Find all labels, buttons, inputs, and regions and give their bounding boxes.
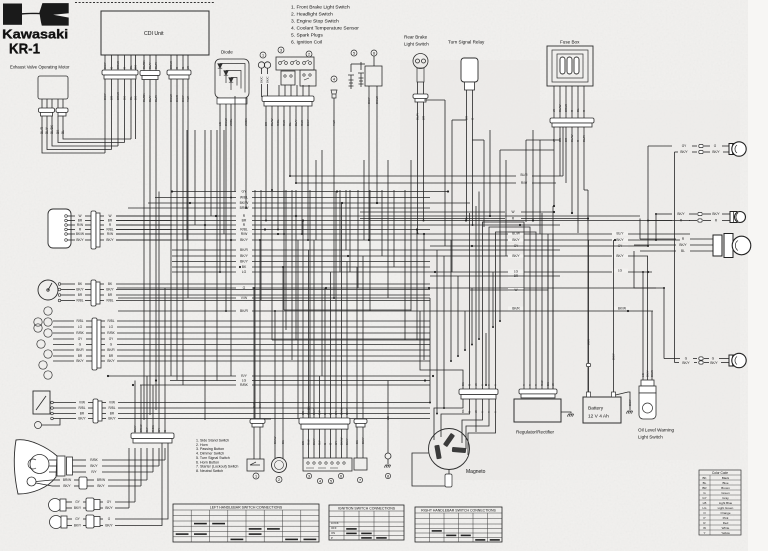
svg-text:BK/Y: BK/Y bbox=[677, 212, 685, 216]
svg-text:BK/Y: BK/Y bbox=[105, 506, 113, 510]
wires, CDI group3 long drops bbox=[170, 79, 172, 376]
svg-text:BL: BL bbox=[681, 249, 685, 253]
svg-text:BL/Y: BL/Y bbox=[45, 126, 49, 134]
regulator rectifier bbox=[514, 399, 561, 422]
wires, CDI group1 drop to motor elbows bbox=[104, 79, 106, 153]
svg-text:BR/W: BR/W bbox=[63, 478, 71, 482]
license plate light bbox=[656, 213, 672, 215]
wire bus R/Y bbox=[108, 375, 236, 377]
meter illumination bulb bbox=[35, 422, 42, 429]
svg-text:ON: ON bbox=[331, 531, 335, 535]
svg-text:5. Spark Plugs: 5. Spark Plugs bbox=[291, 33, 323, 39]
wire bus BK bbox=[172, 266, 236, 268]
bus label BK/W right bbox=[614, 307, 630, 311]
kawasaki logo block bbox=[3, 4, 22, 25]
svg-text:BK/Y: BK/Y bbox=[97, 484, 105, 488]
svg-text:4. Coolant Temperature Sensor: 4. Coolant Temperature Sensor bbox=[291, 26, 359, 32]
svg-text:BR: BR bbox=[78, 354, 83, 358]
connector, starter lockout switch bbox=[354, 419, 367, 423]
indicator lamp cluster bbox=[44, 307, 52, 315]
wire bus BK/Y bbox=[172, 261, 236, 263]
svg-text:BK/R: BK/R bbox=[240, 248, 248, 252]
svg-text:BL/BK: BL/BK bbox=[50, 124, 54, 134]
junction dots bbox=[171, 190, 173, 192]
svg-text:BL/R: BL/R bbox=[520, 173, 528, 177]
staircase risers cluster to buses bbox=[499, 230, 501, 322]
table RIGHT HANDLEBAR SWITCH CONNECTIONS bbox=[415, 507, 502, 542]
svg-text:Gray: Gray bbox=[722, 496, 729, 500]
svg-text:BK/Y: BK/Y bbox=[106, 238, 114, 242]
wires, left switch leads down bbox=[302, 429, 304, 458]
svg-text:BR: BR bbox=[110, 412, 115, 416]
connector, cluster 8-pin bbox=[92, 318, 97, 370]
wire bus G bbox=[117, 287, 236, 289]
svg-text:V/W: V/W bbox=[79, 401, 85, 405]
svg-text:LG: LG bbox=[618, 269, 623, 273]
svg-text:BK/Y: BK/Y bbox=[345, 438, 349, 445]
svg-text:BR: BR bbox=[80, 412, 85, 416]
svg-text:LG: LG bbox=[242, 379, 247, 383]
svg-text:5: 5 bbox=[353, 51, 355, 55]
wires, rear brake switch bbox=[417, 82, 419, 94]
svg-text:BL/Y: BL/Y bbox=[617, 232, 625, 236]
svg-text:R/BL: R/BL bbox=[108, 406, 115, 410]
svg-text:BL/Y: BL/Y bbox=[148, 62, 152, 69]
svg-text:LG: LG bbox=[242, 270, 247, 274]
connector, left handlebar switch 9-pin bbox=[299, 418, 350, 424]
svg-text:R/Y: R/Y bbox=[241, 374, 247, 378]
svg-text:Y: Y bbox=[522, 384, 526, 386]
wire bus R bbox=[116, 215, 236, 217]
extra mid verticals bbox=[339, 190, 341, 272]
svg-text:GY: GY bbox=[334, 441, 338, 445]
svg-text:Orange: Orange bbox=[720, 511, 730, 515]
svg-text:BK/W: BK/W bbox=[273, 436, 277, 444]
svg-text:Magneto: Magneto bbox=[466, 469, 486, 475]
svg-text:BK/Y: BK/Y bbox=[74, 506, 82, 510]
svg-text:Blue: Blue bbox=[722, 481, 728, 485]
svg-text:R/W: R/W bbox=[241, 232, 248, 236]
connector, motor 3-pin bbox=[39, 108, 55, 112]
svg-text:R/W: R/W bbox=[307, 439, 311, 445]
svg-text:BR/W: BR/W bbox=[116, 61, 120, 69]
svg-text:4: 4 bbox=[319, 479, 321, 483]
svg-text:BL: BL bbox=[576, 108, 580, 112]
svg-text:BK/Y: BK/Y bbox=[90, 464, 98, 468]
wires, magneto leads up bbox=[420, 311, 463, 389]
svg-text:BK/R: BK/R bbox=[512, 307, 520, 311]
tail brake light bbox=[640, 238, 676, 240]
svg-text:W: W bbox=[511, 210, 514, 214]
svg-text:W: W bbox=[552, 109, 556, 112]
svg-text:BR: BR bbox=[78, 219, 83, 223]
svg-text:GY: GY bbox=[334, 411, 338, 415]
bus labels mid-right column bbox=[508, 232, 524, 236]
svg-text:BK/Y: BK/Y bbox=[74, 524, 82, 528]
svg-text:4: 4 bbox=[333, 77, 335, 81]
connector, magneto 6-pin bbox=[459, 389, 498, 395]
svg-text:R/W: R/W bbox=[107, 232, 113, 236]
svg-text:BK/Y: BK/Y bbox=[680, 150, 688, 154]
svg-text:BK/Y: BK/Y bbox=[712, 212, 720, 216]
svg-text:1. Front Brake Light Switch: 1. Front Brake Light Switch bbox=[291, 5, 350, 11]
svg-text:2: 2 bbox=[308, 52, 310, 56]
svg-text:Y: Y bbox=[528, 384, 532, 386]
wires, relay leads bbox=[466, 90, 468, 219]
headlight switch S2 bbox=[278, 47, 284, 53]
svg-text:6. Ignition Coil: 6. Ignition Coil bbox=[291, 40, 322, 46]
wire bus R/W bbox=[116, 233, 236, 235]
battery bbox=[583, 397, 621, 423]
svg-text:BK/Y: BK/Y bbox=[103, 62, 107, 69]
svg-text:Exhaust Valve Operating Motor: Exhaust Valve Operating Motor bbox=[10, 65, 70, 70]
wires, meter bbox=[61, 283, 75, 285]
svg-text:BL: BL bbox=[703, 481, 707, 485]
front right turn signal lamp bbox=[50, 516, 63, 529]
svg-text:BK/Y: BK/Y bbox=[312, 438, 316, 445]
svg-text:G/W: G/W bbox=[252, 402, 256, 408]
svg-text:W: W bbox=[703, 526, 706, 530]
wires, fuse box to connector bbox=[553, 86, 555, 118]
svg-text:LG: LG bbox=[78, 325, 83, 329]
color code table bbox=[699, 470, 741, 535]
spark plugs bbox=[351, 50, 357, 56]
svg-text:Yellow: Yellow bbox=[721, 531, 730, 535]
ignition coil T1 bbox=[371, 50, 377, 56]
connector, CDI 4-pin bbox=[167, 70, 191, 75]
extra buses right half bbox=[430, 245, 648, 247]
svg-text:R/BL: R/BL bbox=[106, 228, 113, 232]
svg-text:R/BL: R/BL bbox=[106, 299, 113, 303]
wires, ignition switch bbox=[67, 215, 75, 217]
exhaust valve operating motor bbox=[38, 76, 68, 99]
wire bus LG bbox=[172, 271, 236, 273]
svg-text:BK/Y: BK/Y bbox=[712, 150, 720, 154]
svg-text:BK/R: BK/R bbox=[76, 348, 84, 352]
regulator ground bbox=[561, 412, 571, 413]
svg-text:W: W bbox=[108, 214, 111, 218]
svg-text:Regulator/Rectifier: Regulator/Rectifier bbox=[516, 430, 555, 435]
svg-text:RIGHT HANDLEBAR SWITCH CONNECT: RIGHT HANDLEBAR SWITCH CONNECTIONS bbox=[421, 509, 496, 513]
wire bus R bbox=[116, 224, 236, 226]
svg-text:Kawasaki: Kawasaki bbox=[2, 27, 68, 42]
svg-text:BR/W: BR/W bbox=[240, 206, 250, 210]
svg-text:R/BK: R/BK bbox=[76, 331, 84, 335]
svg-text:GY: GY bbox=[242, 190, 248, 194]
svg-text:BR/W: BR/W bbox=[564, 104, 568, 112]
svg-text:R/BK: R/BK bbox=[90, 458, 98, 462]
svg-text:BK/Y: BK/Y bbox=[63, 484, 71, 488]
svg-text:BK/R: BK/R bbox=[240, 309, 248, 313]
svg-text:BK/Y: BK/Y bbox=[76, 359, 84, 363]
wire bus BK/Y bbox=[116, 239, 236, 241]
wires, battery leads bbox=[588, 240, 590, 392]
svg-text:LG: LG bbox=[109, 325, 114, 329]
svg-text:BR: BR bbox=[108, 293, 113, 297]
svg-text:BK/W: BK/W bbox=[340, 437, 344, 445]
svg-text:BR: BR bbox=[242, 219, 247, 223]
svg-text:BR: BR bbox=[108, 219, 113, 223]
svg-text:Green: Green bbox=[721, 491, 730, 495]
svg-text:LB: LB bbox=[703, 501, 707, 505]
svg-text:GY: GY bbox=[702, 496, 706, 500]
svg-text:LOCK: LOCK bbox=[331, 521, 339, 525]
wires, right verticals bbox=[647, 146, 649, 246]
rear right turn signal light bbox=[664, 358, 680, 360]
svg-text:R/Y: R/Y bbox=[318, 410, 322, 415]
svg-text:V/W: V/W bbox=[241, 296, 248, 300]
svg-text:Battery: Battery bbox=[588, 406, 604, 412]
connector, meter 4-pin bbox=[91, 280, 96, 306]
svg-text:GY: GY bbox=[157, 428, 161, 432]
svg-text:Y: Y bbox=[703, 531, 705, 535]
harness verticals center bbox=[254, 190, 256, 419]
svg-text:3. Engine Stop Switch: 3. Engine Stop Switch bbox=[291, 19, 339, 25]
svg-text:BR: BR bbox=[301, 441, 305, 445]
svg-text:R/W: R/W bbox=[77, 223, 83, 227]
connector, handlebar switches 8-pin bbox=[262, 96, 314, 102]
svg-text:BK/R: BK/R bbox=[107, 348, 115, 352]
svg-text:R/BL: R/BL bbox=[76, 299, 83, 303]
wires, switch row to connector bbox=[278, 85, 280, 96]
wires, indicator cluster bbox=[53, 320, 74, 322]
kawasaki K flag mark bbox=[22, 3, 69, 26]
svg-text:BK: BK bbox=[134, 65, 138, 69]
svg-text:BK/Y: BK/Y bbox=[679, 243, 687, 247]
horn bbox=[272, 458, 287, 473]
wires, CDI group2 long drops bbox=[143, 80, 145, 421]
svg-text:BK/Y: BK/Y bbox=[361, 437, 365, 444]
wires, front harness connector risers bbox=[134, 424, 136, 433]
wires, motor to CDI bbox=[41, 99, 43, 108]
svg-text:R/BL: R/BL bbox=[240, 228, 248, 232]
wires, CDI leads group 2 bbox=[143, 55, 145, 71]
svg-text:BK/Y: BK/Y bbox=[312, 408, 316, 415]
wire bus BR bbox=[116, 220, 236, 222]
svg-text:BK/Y: BK/Y bbox=[512, 254, 520, 258]
svg-text:BK: BK bbox=[355, 440, 359, 444]
svg-text:2. Headlight Switch: 2. Headlight Switch bbox=[291, 12, 333, 18]
connector, CDI 6-pin bbox=[102, 70, 138, 75]
tail light feeds bbox=[639, 219, 641, 240]
svg-text:LG: LG bbox=[702, 506, 707, 510]
table LEFT HANDLEBAR SWITCH CONNECTIONS bbox=[173, 504, 319, 542]
svg-text:R/W: R/W bbox=[521, 181, 527, 185]
svg-text:Light Switch: Light Switch bbox=[638, 435, 663, 440]
svg-text:2: 2 bbox=[278, 478, 280, 482]
connector, left turn signal bbox=[86, 498, 94, 511]
svg-text:Diode: Diode bbox=[221, 50, 233, 55]
svg-text:Rear Brake: Rear Brake bbox=[404, 35, 428, 40]
connector, ignition switch 6-pin bbox=[91, 211, 96, 249]
right side feeder wires bbox=[290, 175, 516, 177]
svg-text:BK: BK bbox=[461, 409, 465, 413]
connector, position light bbox=[79, 477, 87, 489]
connector, headlight bbox=[57, 456, 65, 476]
svg-text:BK/Y: BK/Y bbox=[367, 97, 371, 104]
svg-text:Turn Signal Relay: Turn Signal Relay bbox=[448, 40, 485, 45]
svg-text:BL/R: BL/R bbox=[40, 126, 44, 134]
svg-text:BK/W: BK/W bbox=[618, 307, 626, 311]
neutral switch bbox=[385, 453, 391, 459]
wires, CDI leads group 1 bbox=[104, 55, 106, 70]
svg-text:BK/Y: BK/Y bbox=[616, 254, 624, 258]
svg-text:BK/Y: BK/Y bbox=[240, 260, 248, 264]
svg-text:CDI Unit: CDI Unit bbox=[144, 31, 164, 37]
svg-text:Y: Y bbox=[534, 384, 538, 386]
battery ground wire bbox=[616, 392, 631, 410]
svg-text:1: 1 bbox=[255, 474, 257, 478]
svg-text:8. Neutral Switch: 8. Neutral Switch bbox=[196, 469, 223, 473]
svg-text:BL/R: BL/R bbox=[154, 61, 158, 69]
connector, front harness bbox=[131, 433, 174, 439]
wire bus GY bbox=[172, 191, 236, 193]
svg-text:BK/R: BK/R bbox=[650, 370, 654, 377]
connector, motor 2-pin bbox=[56, 108, 68, 112]
front right turn signal light bbox=[648, 145, 672, 147]
engine stop switch S3 bbox=[306, 51, 312, 57]
svg-text:6: 6 bbox=[340, 474, 342, 478]
svg-text:BK/Y: BK/Y bbox=[133, 425, 137, 432]
svg-text:W/R: W/R bbox=[587, 338, 591, 345]
svg-text:BK/Y: BK/Y bbox=[76, 238, 84, 242]
wire bus BK/W bbox=[148, 202, 236, 204]
svg-text:LG: LG bbox=[514, 270, 519, 274]
svg-text:Pink: Pink bbox=[723, 516, 729, 520]
svg-text:R/BK: R/BK bbox=[107, 331, 115, 335]
svg-text:R/BL: R/BL bbox=[107, 319, 114, 323]
svg-text:OFF: OFF bbox=[331, 526, 337, 530]
headlight assembly bbox=[14, 440, 57, 494]
svg-text:W: W bbox=[186, 66, 190, 69]
svg-text:Light Blue: Light Blue bbox=[719, 501, 733, 505]
svg-text:W/BL: W/BL bbox=[240, 196, 248, 200]
connector, fuse box 6-pin bbox=[550, 118, 594, 123]
harness verticals mid bbox=[186, 130, 188, 240]
svg-text:KR-1: KR-1 bbox=[9, 42, 40, 58]
oil level warning light switch bbox=[641, 380, 654, 386]
svg-text:3: 3 bbox=[280, 48, 282, 52]
wire R to battery bbox=[587, 190, 589, 396]
svg-text:BK/W: BK/W bbox=[375, 96, 379, 104]
svg-text:BK: BK bbox=[242, 265, 247, 269]
wires, ignition coil leads bbox=[368, 86, 370, 240]
fuses bbox=[560, 57, 565, 74]
wire bus BK/R bbox=[172, 249, 236, 251]
svg-text:BK/Y: BK/Y bbox=[646, 370, 650, 377]
magneto bbox=[429, 429, 470, 470]
wires, temperature gauge bbox=[53, 402, 76, 404]
svg-text:BR: BR bbox=[109, 354, 114, 358]
svg-text:BK: BK bbox=[281, 440, 285, 444]
svg-text:BR/W: BR/W bbox=[97, 478, 105, 482]
dashed top border bbox=[75, 2, 215, 4]
svg-text:BK/Y: BK/Y bbox=[258, 401, 262, 408]
wires, left switch leads up bbox=[302, 221, 304, 419]
svg-text:BK/Y: BK/Y bbox=[240, 238, 248, 242]
connector, CDI 3-pin bbox=[140, 71, 160, 76]
svg-text:IGNITION SWITCH CONNECTIONS: IGNITION SWITCH CONNECTIONS bbox=[338, 507, 396, 511]
svg-text:BK: BK bbox=[702, 476, 706, 480]
meter gauge bbox=[38, 280, 58, 300]
svg-text:BK/Y: BK/Y bbox=[710, 361, 718, 365]
position light wires bbox=[36, 480, 52, 482]
table IGNITION SWITCH CONNECTIONS bbox=[329, 505, 404, 540]
svg-text:BK/Y: BK/Y bbox=[612, 353, 616, 360]
svg-text:Brown: Brown bbox=[721, 486, 730, 490]
svg-text:R/BL: R/BL bbox=[78, 406, 85, 410]
svg-text:6: 6 bbox=[373, 51, 375, 55]
svg-text:BK/Y: BK/Y bbox=[240, 254, 248, 258]
svg-text:5: 5 bbox=[330, 479, 332, 483]
svg-text:8: 8 bbox=[387, 474, 389, 478]
svg-text:BK/C: BK/C bbox=[266, 76, 270, 83]
svg-text:3: 3 bbox=[308, 474, 310, 478]
wire bus BR/W bbox=[128, 207, 236, 209]
svg-text:Color Code: Color Code bbox=[712, 471, 728, 475]
svg-text:BK/C: BK/C bbox=[260, 76, 264, 83]
magneto pickup wire bbox=[412, 453, 445, 486]
svg-text:BK/Y: BK/Y bbox=[512, 238, 520, 242]
svg-text:BK/Y: BK/Y bbox=[107, 359, 115, 363]
svg-text:BR/W: BR/W bbox=[169, 61, 173, 69]
side stand switch S4 bbox=[250, 419, 265, 423]
harness elbows bbox=[255, 418, 271, 420]
svg-text:BK/W: BK/W bbox=[240, 201, 249, 205]
svg-text:PU/BK: PU/BK bbox=[307, 406, 311, 415]
svg-text:Fuse Box: Fuse Box bbox=[560, 40, 580, 45]
svg-text:P: P bbox=[331, 536, 333, 540]
svg-text:BL: BL bbox=[129, 65, 133, 69]
svg-text:BK/Y: BK/Y bbox=[78, 417, 86, 421]
svg-text:BK/W: BK/W bbox=[340, 407, 344, 415]
wire bus LG bbox=[170, 380, 236, 382]
magneto ground bbox=[448, 470, 450, 478]
wires, headlight leads bbox=[49, 459, 57, 461]
svg-text:P: P bbox=[703, 516, 705, 520]
front left turn signal lamp bbox=[49, 499, 62, 512]
svg-text:BK/Y: BK/Y bbox=[105, 524, 113, 528]
svg-text:Oil Level Warning: Oil Level Warning bbox=[638, 428, 675, 433]
svg-text:BL: BL bbox=[61, 130, 65, 134]
left handlebar switch block bbox=[303, 458, 352, 471]
svg-text:BL/R: BL/R bbox=[416, 112, 420, 120]
svg-text:BL/W: BL/W bbox=[558, 104, 562, 112]
svg-text:BK/W: BK/W bbox=[76, 232, 84, 236]
svg-text:BK/Y: BK/Y bbox=[616, 238, 624, 242]
svg-text:12 V 4 Ah: 12 V 4 Ah bbox=[588, 414, 609, 420]
wires, CDI leads group 3 bbox=[170, 55, 172, 70]
svg-text:BL/BK: BL/BK bbox=[142, 60, 146, 69]
wire bus R/BK bbox=[140, 384, 236, 386]
temperature gauge bbox=[33, 391, 50, 414]
wire bus W/BL bbox=[155, 197, 236, 199]
svg-text:White: White bbox=[722, 526, 730, 530]
svg-text:BK/Y: BK/Y bbox=[682, 361, 690, 365]
extra switch drops bbox=[271, 190, 273, 340]
front brake light switch S1 bbox=[260, 52, 266, 58]
svg-text:R/Y: R/Y bbox=[145, 427, 149, 432]
ignition switch bbox=[48, 209, 71, 248]
svg-text:BK/Y: BK/Y bbox=[345, 408, 349, 415]
svg-text:LEFT HANDLEBAR SWITCH CONNECTI: LEFT HANDLEBAR SWITCH CONNECTIONS bbox=[210, 506, 283, 510]
svg-text:7: 7 bbox=[359, 478, 361, 482]
svg-text:BK/Y: BK/Y bbox=[108, 417, 116, 421]
svg-text:R/BL: R/BL bbox=[76, 319, 83, 323]
svg-text:BK/Y: BK/Y bbox=[76, 288, 84, 292]
svg-text:Light Green: Light Green bbox=[718, 506, 734, 510]
svg-text:V/W: V/W bbox=[109, 401, 115, 405]
